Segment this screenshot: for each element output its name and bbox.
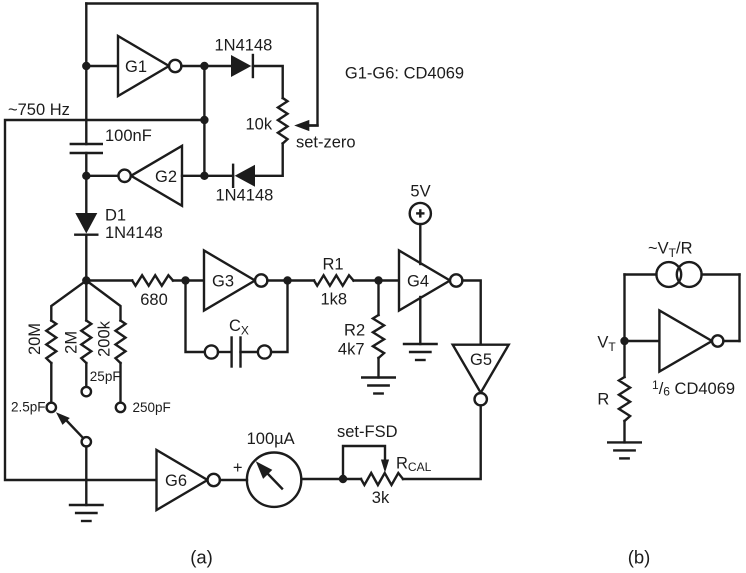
svg-text:~VT/R: ~VT/R: [648, 240, 693, 261]
wire G2 input stub: [182, 175, 204, 177]
node 750Hz tap junction: [200, 116, 208, 124]
svg-text:(a): (a): [190, 547, 213, 568]
wire ~750 Hz output: [5, 120, 204, 480]
diode 1N4148 upper (G1 to pot): [204, 65, 232, 67]
resistor R2 4k7: [377, 281, 379, 316]
svg-text:G1: G1: [125, 58, 147, 76]
op-amp inverter G3: [204, 251, 255, 311]
wire G1 output: [181, 65, 204, 67]
svg-text:1k8: 1k8: [320, 291, 347, 309]
wire b left rail: [623, 275, 625, 342]
svg-text:4k7: 4k7: [338, 341, 365, 359]
node G1 output junction: [200, 62, 208, 70]
wire vertical G1-G2 link: [203, 66, 205, 176]
svg-text:1N4148: 1N4148: [215, 37, 273, 55]
node main junction: [82, 276, 90, 284]
power 5V source: [410, 203, 431, 224]
wire G4 to ground: [419, 297, 421, 344]
wiper set-FSD arrow: [343, 446, 385, 479]
svg-text:5V: 5V: [410, 183, 430, 201]
svg-text:R: R: [597, 391, 609, 409]
wire upper diode to pot top: [253, 66, 283, 98]
svg-text:G4: G4: [407, 273, 429, 291]
svg-text:3k: 3k: [372, 489, 390, 507]
wire G1 input: [86, 65, 118, 67]
node G1 input junction: [82, 62, 90, 70]
resistor 10k potentiometer: [278, 98, 288, 144]
ground G4: [404, 343, 437, 345]
diode 1N4148 lower (pot to G2): [235, 165, 255, 187]
wire inverter output: [723, 340, 739, 342]
capacitor CX feedback branch: [186, 281, 205, 353]
wire 680 to G3: [173, 279, 204, 281]
meter 100uA: [247, 453, 301, 507]
node G3 output junction: [283, 276, 291, 284]
op-amp inverter G5 (points down): [453, 345, 509, 393]
svg-text:1N4148: 1N4148: [216, 187, 274, 205]
ground switch: [70, 504, 103, 506]
op-amp inverter G1: [118, 36, 169, 96]
switch pole and lever: [82, 437, 91, 446]
svg-text:250pF: 250pF: [133, 400, 171, 415]
wire main node to 680: [86, 279, 132, 281]
wire top feedback loop: [86, 4, 317, 126]
svg-text:G1-G6: CD4069: G1-G6: CD4069: [345, 64, 464, 82]
wire G2 node to D1: [85, 176, 87, 214]
resistor 200k branch: [86, 281, 120, 321]
node VT: [620, 337, 628, 345]
svg-text:100µA: 100µA: [247, 430, 295, 448]
svg-text:R1: R1: [322, 256, 343, 274]
contact 2.5pF: [47, 403, 56, 412]
svg-text:100nF: 100nF: [105, 127, 152, 145]
svg-text:G3: G3: [212, 273, 234, 291]
svg-text:CX: CX: [229, 317, 249, 338]
node G2 output junction: [82, 172, 90, 180]
resistor 2M branch: [85, 281, 87, 321]
svg-text:10k: 10k: [246, 116, 273, 134]
wiper arrow set-zero: [308, 124, 318, 126]
node meter/3k junction: [339, 475, 347, 483]
wire left rail top (G1 input rail): [85, 4, 87, 145]
svg-text:set-FSD: set-FSD: [337, 423, 398, 441]
svg-text:1N4148: 1N4148: [105, 224, 163, 242]
svg-text:1/6 CD4069: 1/6 CD4069: [652, 378, 735, 399]
resistor R: [623, 341, 625, 377]
wire R1 to G4: [354, 279, 400, 281]
wire G5 output down: [403, 405, 481, 479]
capacitor 100nF: [71, 143, 102, 145]
wire cap to G2 output node: [85, 153, 87, 176]
svg-text:G6: G6: [165, 472, 187, 490]
resistor 20M branch: [51, 281, 86, 321]
op-amp inverter 1/6 CD4069: [659, 311, 712, 372]
svg-text:set-zero: set-zero: [296, 134, 356, 152]
wire pot bottom to lower diode: [254, 144, 283, 176]
wire G3 output to R1: [267, 279, 314, 281]
ground R2: [362, 376, 395, 378]
wire 3k to meter node: [301, 478, 361, 480]
svg-text:200k: 200k: [95, 320, 113, 357]
ground b: [608, 441, 641, 443]
svg-text:G5: G5: [470, 351, 492, 369]
node G2 input junction: [200, 172, 208, 180]
svg-text:~750 Hz: ~750 Hz: [8, 101, 70, 119]
node G3 input junction: [181, 276, 189, 284]
svg-text:20M: 20M: [26, 323, 44, 355]
op-amp inverter G2 (points left): [131, 146, 182, 206]
svg-text:VT: VT: [597, 334, 616, 355]
node R1/R2/G4 junction: [374, 276, 382, 284]
svg-text:R2: R2: [344, 322, 365, 340]
contact 25pF: [82, 387, 91, 396]
diode D1 1N4148: [75, 213, 97, 234]
wire b top loop: [625, 273, 657, 275]
resistor RCAL 3k: [361, 473, 403, 485]
resistor 680: [132, 275, 173, 285]
svg-text:2.5pF: 2.5pF: [11, 400, 46, 415]
svg-text:+: +: [233, 459, 243, 477]
resistor R1 1k8: [314, 275, 354, 285]
current source ~VT/R: [656, 262, 681, 287]
svg-text:(b): (b): [628, 547, 651, 568]
wire pole to ground: [85, 447, 87, 506]
svg-text:2M: 2M: [62, 331, 80, 354]
svg-text:D1: D1: [105, 207, 126, 225]
op-amp inverter G6: [157, 450, 208, 510]
wire D1 to main node: [85, 235, 87, 281]
svg-text:RCAL: RCAL: [396, 454, 432, 474]
wire G6 output to meter: [220, 479, 247, 481]
wire 5V to G4: [419, 224, 421, 264]
wire VT to inverter: [625, 340, 660, 342]
wire lower diode to G2 input: [204, 175, 233, 177]
svg-text:25pF: 25pF: [90, 369, 121, 384]
op-amp inverter G4: [399, 251, 450, 311]
svg-text:G2: G2: [155, 168, 177, 186]
svg-text:680: 680: [140, 291, 168, 309]
contact 250pF: [116, 403, 125, 412]
wire G2 output: [86, 175, 118, 177]
wire G4 output to G5: [462, 281, 480, 345]
